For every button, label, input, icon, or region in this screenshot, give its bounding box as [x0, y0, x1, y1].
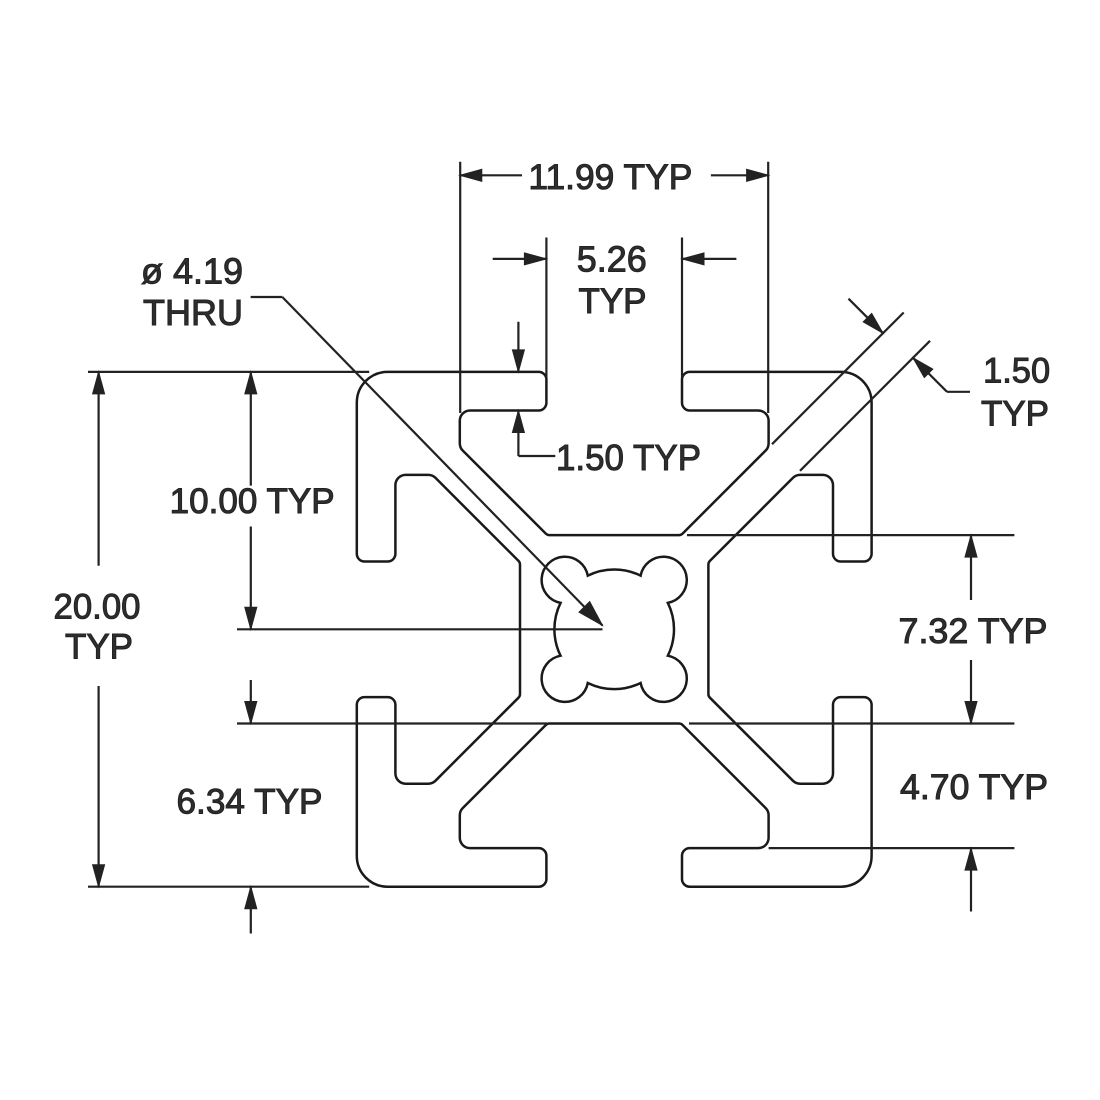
svg-text:20.00: 20.00: [54, 587, 141, 626]
extrusion profile outline: [357, 372, 872, 887]
dim 1.50 TYP web: inner extension line: [772, 313, 904, 445]
extension line: centerline to bore: [237, 628, 603, 630]
dim 20.00 TYP: arrows: [97, 372, 99, 566]
svg-text:THRU: THRU: [143, 292, 243, 333]
svg-text:TYP: TYP: [65, 628, 133, 667]
extension line: bottom face: [88, 886, 369, 888]
dim 10.00 TYP: arrows: [250, 372, 252, 486]
extension line: bottom lip underside, right side: [769, 847, 1015, 849]
svg-text:5.26: 5.26: [577, 239, 647, 280]
svg-text:TYP: TYP: [578, 282, 646, 321]
svg-text:TYP: TYP: [981, 395, 1049, 434]
dim 5.26 TYP: left extension line: [545, 238, 547, 378]
dim 7.32 TYP: arrows: [970, 535, 972, 600]
dim 6.34 TYP: arrows: [250, 680, 252, 724]
dim 11.99 TYP: left extension line: [459, 162, 461, 413]
svg-text:4.70 TYP: 4.70 TYP: [900, 768, 1048, 807]
center bore (clover): [542, 557, 687, 702]
extension line: hub top, right side: [687, 534, 1014, 536]
extension line: hub bottom, left side: [237, 722, 547, 724]
dim 1.50 TYP lip: upper arrow: [517, 322, 519, 372]
hole callout: leader line with arrow: [251, 296, 283, 298]
svg-text:7.32 TYP: 7.32 TYP: [899, 612, 1048, 651]
svg-text:1.50 TYP: 1.50 TYP: [556, 437, 701, 478]
svg-text:1.50: 1.50: [983, 351, 1050, 390]
dim 1.50 TYP lip: lower arrow and leader: [512, 411, 524, 433]
svg-text:11.99 TYP: 11.99 TYP: [528, 158, 692, 197]
dim 1.50 TYP web: upper arrow: [849, 299, 884, 334]
svg-text:ø 4.19: ø 4.19: [141, 251, 243, 292]
svg-text:6.34 TYP: 6.34 TYP: [177, 782, 323, 821]
extension line: top face: [88, 371, 369, 373]
dim 4.70 TYP: arrow: [970, 848, 972, 911]
antialiasing normalizer: [0, 0, 1, 1]
extension line: hub bottom, right side: [689, 722, 1014, 724]
svg-text:10.00 TYP: 10.00 TYP: [170, 482, 335, 521]
dim 11.99 TYP: right extension line: [767, 162, 769, 413]
dim 1.50 TYP web: outer extension line: [800, 341, 930, 471]
dim 11.99 TYP: dimension line with arrows: [460, 174, 522, 176]
dim 1.50 TYP web: lower arrow and leader: [913, 358, 933, 378]
dim 5.26 TYP: arrows: [493, 258, 547, 260]
dim 5.26 TYP: right extension line: [681, 238, 683, 378]
